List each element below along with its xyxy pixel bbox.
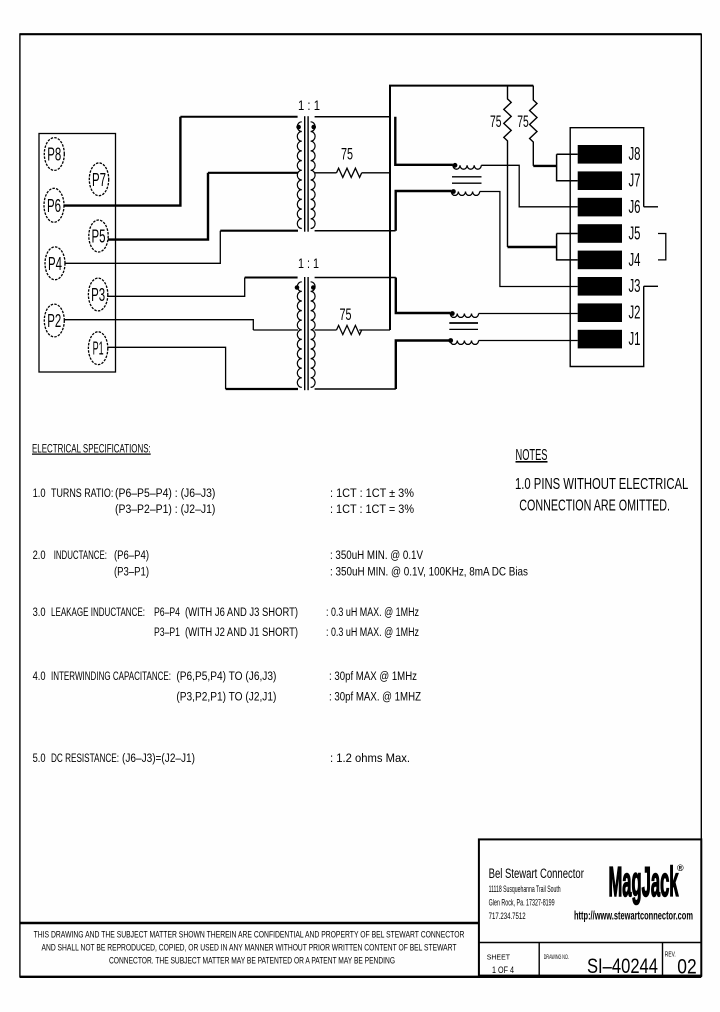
- svg-text:: 1CT : 1CT ± 3%: : 1CT : 1CT ± 3%: [330, 486, 414, 500]
- svg-text:2.0: 2.0: [33, 548, 46, 562]
- svg-text:J3: J3: [629, 276, 641, 296]
- svg-text:J7: J7: [629, 171, 641, 191]
- svg-text:INTERWINDING CAPACITANCE:: INTERWINDING CAPACITANCE:: [51, 669, 171, 683]
- svg-text:: 30pf MAX @ 1MHz: : 30pf MAX @ 1MHz: [329, 669, 417, 683]
- svg-text:LEAKAGE INDUCTANCE:: LEAKAGE INDUCTANCE:: [51, 605, 145, 619]
- svg-text:CONNECTION ARE OMITTED.: CONNECTION ARE OMITTED.: [519, 498, 670, 515]
- svg-text:AND SHALL NOT BE REPRODUCED, C: AND SHALL NOT BE REPRODUCED, COPIED, OR …: [42, 943, 457, 953]
- svg-text:1.0 PINS WITHOUT ELECTRICAL: 1.0 PINS WITHOUT ELECTRICAL: [515, 476, 688, 493]
- svg-text:P6: P6: [47, 196, 61, 216]
- svg-text:: 0.3 uH MAX. @ 1MHz: : 0.3 uH MAX. @ 1MHz: [326, 625, 419, 639]
- svg-text:(P6,P5,P4) TO (J6,J3): (P6,P5,P4) TO (J6,J3): [176, 669, 276, 683]
- svg-text:J4: J4: [629, 250, 641, 270]
- svg-text:(P3–P2–P1) : (J2–J1): (P3–P2–P1) : (J2–J1): [115, 502, 215, 516]
- svg-text:1 OF 4: 1 OF 4: [492, 965, 514, 975]
- svg-text:SHEET: SHEET: [487, 955, 511, 962]
- svg-text:75: 75: [517, 113, 529, 131]
- svg-text:11118 Susquehanna Trail South: 11118 Susquehanna Trail South: [489, 884, 561, 894]
- svg-text:P1: P1: [93, 339, 104, 359]
- svg-text:DRAWING NO.: DRAWING NO.: [544, 954, 569, 961]
- svg-text:(WITH J6 AND J3 SHORT): (WITH J6 AND J3 SHORT): [185, 605, 298, 619]
- svg-text:(WITH J2 AND J1 SHORT): (WITH J2 AND J1 SHORT): [185, 625, 298, 639]
- svg-text:ELECTRICAL SPECIFICATIONS:: ELECTRICAL SPECIFICATIONS:: [32, 442, 151, 456]
- svg-text:P3–P1: P3–P1: [154, 625, 180, 639]
- svg-text:J8: J8: [629, 144, 641, 164]
- svg-text:P5: P5: [92, 227, 106, 247]
- svg-text:®: ®: [677, 863, 684, 873]
- svg-text:: 1.2 ohms Max.: : 1.2 ohms Max.: [330, 751, 410, 765]
- svg-text:J5: J5: [629, 223, 641, 243]
- svg-text:MagJack: MagJack: [609, 858, 679, 905]
- svg-text:DC RESISTANCE:: DC RESISTANCE:: [51, 751, 119, 765]
- svg-text:TURNS RATIO:: TURNS RATIO:: [51, 486, 113, 500]
- svg-text:Bel Stewart Connector: Bel Stewart Connector: [489, 866, 584, 882]
- svg-text:THIS DRAWING AND THE SUBJECT M: THIS DRAWING AND THE SUBJECT MATTER SHOW…: [34, 930, 465, 940]
- svg-text:P7: P7: [92, 170, 106, 190]
- svg-text:REV.: REV.: [665, 952, 676, 959]
- svg-text:: 30pf MAX. @ 1MHZ: : 30pf MAX. @ 1MHZ: [329, 690, 421, 704]
- svg-text:SI–40244: SI–40244: [587, 955, 658, 978]
- svg-text:: 350uH MIN. @ 0.1V, 100KHz,: : 350uH MIN. @ 0.1V, 100KHz, 8mA DC Bias: [330, 564, 528, 578]
- svg-text:http://www.stewartconnector.co: http://www.stewartconnector.com: [574, 911, 693, 923]
- svg-text:4.0: 4.0: [33, 669, 46, 683]
- svg-text:CONNECTOR. THE SUBJECT MATTE: CONNECTOR. THE SUBJECT MATTER MAY BE PAT…: [109, 956, 395, 966]
- svg-text:1 : 1: 1 : 1: [298, 256, 319, 271]
- svg-text:(P3–P1): (P3–P1): [114, 564, 149, 578]
- svg-text:(P6–P4): (P6–P4): [114, 548, 149, 562]
- svg-text:717.234.7512: 717.234.7512: [489, 911, 526, 921]
- svg-text:J2: J2: [629, 303, 641, 323]
- svg-text:Glen Rock, Pa. 17327-8199: Glen Rock, Pa. 17327-8199: [489, 898, 555, 908]
- svg-text:P8: P8: [47, 145, 61, 165]
- svg-text:75: 75: [341, 146, 353, 164]
- svg-text:J1: J1: [629, 329, 641, 349]
- svg-text:INDUCTANCE:: INDUCTANCE:: [54, 548, 107, 562]
- svg-text:NOTES: NOTES: [516, 447, 548, 464]
- svg-text:(P6–P5–P4) : (J6–J3): (P6–P5–P4) : (J6–J3): [115, 486, 215, 500]
- svg-text:3.0: 3.0: [33, 605, 46, 619]
- svg-text:5.0: 5.0: [33, 751, 46, 765]
- svg-text:(P3,P2,P1) TO (J2,J1): (P3,P2,P1) TO (J2,J1): [176, 690, 276, 704]
- svg-text:P2: P2: [47, 311, 61, 331]
- svg-text:75: 75: [340, 306, 352, 324]
- svg-text:1 : 1: 1 : 1: [298, 98, 320, 113]
- svg-text:02: 02: [677, 956, 696, 979]
- svg-text:: 1CT : 1CT = 3%: : 1CT : 1CT = 3%: [330, 502, 414, 516]
- svg-text:P4: P4: [48, 254, 62, 274]
- svg-text:1.0: 1.0: [33, 486, 46, 500]
- svg-text:(J6–J3)=(J2–J1): (J6–J3)=(J2–J1): [122, 751, 195, 765]
- svg-text:P6–P4: P6–P4: [154, 605, 180, 619]
- svg-text:P3: P3: [91, 285, 105, 305]
- svg-text:: 350uH MIN. @ 0.1V: : 350uH MIN. @ 0.1V: [330, 548, 424, 562]
- svg-text:J6: J6: [629, 197, 641, 217]
- svg-text:: 0.3 uH MAX. @ 1MHz: : 0.3 uH MAX. @ 1MHz: [326, 605, 419, 619]
- svg-text:75: 75: [490, 113, 502, 131]
